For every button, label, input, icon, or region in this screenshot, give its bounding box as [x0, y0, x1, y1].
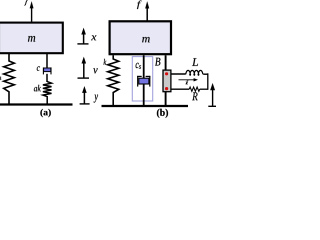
- label f (a): [25, 0, 28, 5]
- damper piston (b): [139, 78, 149, 84]
- damper cup (b): [137, 75, 142, 77]
- terminal node top: [165, 72, 168, 75]
- terminal node bottom: [165, 87, 168, 90]
- damper rod lower (a): [46, 74, 48, 82]
- label c_s c (b): [136, 63, 139, 68]
- coordinate arrow (b): [212, 89, 214, 107]
- label caption (b): [157, 109, 168, 118]
- label y (a): [94, 95, 98, 103]
- label R (b): [192, 92, 197, 100]
- force arrow f (a): [31, 7, 33, 21]
- label f (b): [137, 1, 142, 10]
- label ak (a): [34, 85, 41, 92]
- resistor R: [189, 87, 200, 91]
- ground (a): [0, 103, 73, 105]
- spring k (b): [108, 55, 119, 106]
- transducer element B: [163, 70, 171, 92]
- cut label k fragment (a): [0, 76, 2, 80]
- wire top: [171, 73, 186, 75]
- coordinate arrow v (a): [83, 62, 85, 78]
- mass m (b): [110, 21, 171, 54]
- label k (b): [104, 59, 107, 65]
- wire right: [207, 73, 209, 90]
- label i (b): [186, 81, 189, 85]
- force arrow f (b): [146, 7, 148, 20]
- damper rod upper (b): [143, 55, 145, 78]
- label L (b): [192, 58, 198, 66]
- wire top right: [203, 73, 208, 75]
- label m (b): [142, 37, 150, 42]
- label m (a): [28, 36, 35, 42]
- transducer rod upper (b): [165, 55, 167, 70]
- damper enclosure box (b): [132, 57, 152, 101]
- coordinate arrow y (a): [83, 92, 85, 104]
- coordinate arrow x (a): [83, 33, 85, 44]
- label c_s subscript s (b): [139, 65, 141, 69]
- wire bottom: [171, 88, 189, 90]
- label x (a): [91, 35, 96, 40]
- inductor L: [186, 70, 203, 75]
- wire bottom right: [200, 88, 208, 90]
- current arrow i: [179, 79, 195, 81]
- label v (a): [93, 68, 97, 73]
- ground (b): [102, 105, 189, 107]
- mass m (a): [0, 23, 63, 54]
- spring k (a): [4, 54, 15, 105]
- damper rod upper (a): [46, 54, 48, 69]
- transducer rod lower (b): [165, 92, 167, 106]
- label c (a): [37, 66, 40, 71]
- spring ak (a): [43, 82, 52, 104]
- label B (b): [155, 58, 160, 66]
- label caption (a): [40, 109, 50, 117]
- damper c (a): [42, 67, 44, 74]
- damper rod lower (b): [143, 84, 145, 106]
